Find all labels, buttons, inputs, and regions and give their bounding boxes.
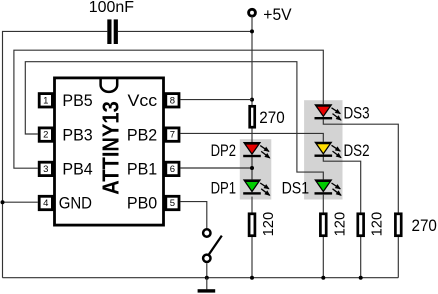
wire: PB4 pin 3 loop to DS3 anode <box>14 50 323 168</box>
wire: Vcc pin 8 to +5V column <box>180 99 252 101</box>
svg-text:DS2: DS2 <box>344 141 370 160</box>
wire: PB3 pin 2 loop to DS1 anode <box>25 62 323 180</box>
pin 7 box <box>166 128 179 141</box>
svg-text:120: 120 <box>260 212 277 237</box>
wire: DS3 cathode to R5 270 <box>323 119 398 212</box>
resistor R1 270 <box>250 106 255 127</box>
LED DS2 (yellow) <box>314 142 341 158</box>
svg-text:PB0: PB0 <box>127 194 157 213</box>
wire: bottom GND rail <box>3 277 399 279</box>
pin 1 box <box>39 94 52 107</box>
wire: R2 bottom to GND rail <box>251 237 253 278</box>
wire: GND net left vertical + top horizontal to capacitor <box>3 31 108 277</box>
node: junction DP column / GND rail <box>250 276 254 280</box>
svg-text:120: 120 <box>369 212 386 237</box>
svg-text:DP1: DP1 <box>211 178 236 197</box>
svg-text:DS1: DS1 <box>282 178 310 197</box>
svg-text:5: 5 <box>170 198 175 209</box>
node: junction DS1 column / GND rail <box>321 276 325 280</box>
IC notch <box>101 78 118 92</box>
wire: DP2 cathode to DP1 anode <box>251 157 253 179</box>
capacitor C1 plates <box>107 19 111 44</box>
resistor R5 270 (DS3 column) <box>395 214 401 236</box>
svg-text:270: 270 <box>412 216 437 235</box>
wire: R4 bottom to GND rail <box>360 237 362 278</box>
svg-text:3: 3 <box>43 164 48 175</box>
wire: PB2 pin 7 to DS2 anode <box>180 133 323 141</box>
gray highlight behind DP1/DP2 LEDs <box>240 139 271 199</box>
+5V terminal <box>249 9 256 16</box>
pin 8 box <box>166 94 179 107</box>
svg-text:PB1: PB1 <box>127 160 157 179</box>
wire: switch to GND rail <box>206 263 208 277</box>
svg-text:4: 4 <box>43 198 48 209</box>
wire: R3 bottom to GND rail <box>322 237 324 278</box>
svg-text:GND: GND <box>59 194 92 213</box>
pin 4 box <box>39 196 52 209</box>
pin 3 box <box>39 162 52 175</box>
node: junction DP2/DP1/PB1 <box>250 166 254 170</box>
svg-text:7: 7 <box>170 130 175 141</box>
svg-text:6: 6 <box>170 164 175 175</box>
resistor R3 120 (DS1 column) <box>320 214 326 236</box>
svg-text:1: 1 <box>43 95 48 106</box>
wire: +5V column down to resistor R1 <box>251 16 253 106</box>
wire: PB0 pin 5 to switch <box>180 202 206 229</box>
svg-text:DS3: DS3 <box>344 104 370 123</box>
svg-text:DP2: DP2 <box>211 141 236 160</box>
node: junction switch / GND rail <box>205 276 209 280</box>
resistor R4 120 (DS2 column) <box>358 214 364 236</box>
svg-text:2: 2 <box>43 130 48 141</box>
svg-text:PB2: PB2 <box>127 125 157 144</box>
wire: R1 bottom to DP2 anode <box>251 129 253 143</box>
wire: R5 bottom to GND rail <box>397 237 399 278</box>
wire: capacitor right plate to +5V column <box>118 30 252 32</box>
LED DP2 (red) <box>243 142 270 158</box>
gray highlight behind DS1/DS2/DS3 LEDs <box>304 100 342 199</box>
node: junction GND pin / left rail <box>1 200 5 204</box>
svg-text:270: 270 <box>259 108 284 127</box>
LED DP1 (green) <box>243 179 270 195</box>
LED DS1 (green) <box>314 179 341 195</box>
svg-text:100nF: 100nF <box>89 0 134 16</box>
node: junction +5V/Vcc wire <box>250 98 254 102</box>
svg-text:PB4: PB4 <box>62 160 92 179</box>
wire: PB1 pin 6 to DP junction <box>180 167 252 169</box>
pin 5 box <box>166 196 179 209</box>
svg-text:Vcc: Vcc <box>128 91 158 110</box>
wire: DS1 cathode to R3 <box>322 195 324 213</box>
svg-text:+5V: +5V <box>263 5 292 24</box>
pin 2 box <box>39 128 52 141</box>
switch S1 <box>203 229 222 262</box>
svg-text:ATTINY13: ATTINY13 <box>97 101 123 195</box>
resistor R2 120 (DP column) <box>249 214 255 236</box>
pin 6 box <box>166 162 179 175</box>
IC U1 body <box>55 78 164 225</box>
svg-text:PB3: PB3 <box>62 125 92 144</box>
wire: DP1 cathode to R2 <box>251 197 253 213</box>
node: junction +5V/capacitor <box>250 29 254 33</box>
wire: DS2 cathode to R4 <box>323 157 360 213</box>
svg-text:120: 120 <box>331 212 348 237</box>
node: junction DS2 column / GND rail <box>359 276 363 280</box>
ground symbol <box>198 278 216 293</box>
wire: GND pin 4 to left GND rail <box>3 201 38 203</box>
LED DS3 (red) <box>314 104 341 120</box>
svg-text:8: 8 <box>170 95 175 106</box>
svg-text:PB5: PB5 <box>62 91 92 110</box>
